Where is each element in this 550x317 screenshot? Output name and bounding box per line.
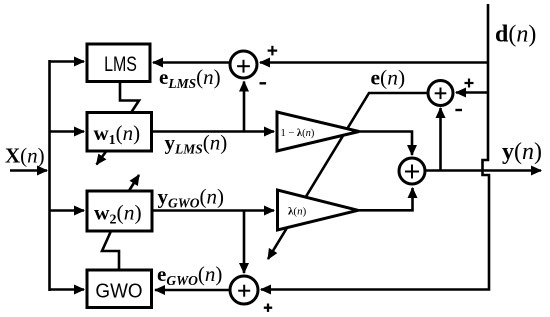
wire e(n) to lambda adaptation [268,93,428,259]
wire w1 adjustable arrow [97,152,107,165]
summer S1 (e_LMS) [230,51,257,78]
wire bus to GWO [50,288,85,291]
wire y_LMS tap up to summer S1 [243,82,246,132]
wire d(n) branch to S1 [260,61,488,64]
node S2 plus sign [465,79,474,88]
node e_LMS(n) label [159,65,221,91]
wire y_GWO tap down to summer S3 [243,211,246,274]
node S3 plus sign [264,304,272,312]
wire e_LMS from S1 to LMS [153,61,230,64]
wire bus to w1 [50,130,85,133]
svg-text:1 − λ(n): 1 − λ(n) [281,128,315,139]
node S1 plus sign [268,46,278,56]
svg-text:w1(n): w1(n) [94,121,141,148]
svg-text:y(n): y(n) [502,139,542,165]
block w2(n) [87,191,152,231]
svg-text:yLMS(n): yLMS(n) [165,131,228,157]
node X(n) label [5,144,45,168]
wire triangle1 output to summer S4 [359,132,412,156]
wire bus to LMS [50,60,85,63]
wire LMS adaptation zigzag to w1 [120,82,139,112]
wire triangle2 output to summer S4 [358,188,413,210]
wire X(n) input arrow [10,169,47,172]
block LMS [87,44,150,82]
svg-text:yGWO(n): yGWO(n) [158,185,225,211]
summer S4 (output combiner) [399,158,425,184]
amplifier triangle 1-lambda U1 [277,112,359,151]
wire e_GWO from S3 to GWO [155,289,230,292]
wire w2 adjustable arrow [129,175,140,192]
node y(n) label [502,139,542,165]
svg-text:λ(n): λ(n) [288,206,307,218]
summer S3 (e_GWO) [230,276,258,304]
wire y(n) output [425,169,541,172]
node y_GWO(n) label [158,185,225,211]
wire d(n) vertical line with crossover jog [261,4,489,290]
svg-text:GWO: GWO [95,280,142,303]
wire bus to w2 [50,209,85,212]
svg-text:eGWO(n): eGWO(n) [157,262,222,288]
wire w2 output y_GWO to triangle 2 [152,209,274,212]
wire y(n) branch up to summer S2 [439,108,442,171]
node y_LMS(n) label [165,131,228,157]
svg-text:w2(n): w2(n) [94,201,142,228]
summer S2 (e) [428,81,453,106]
svg-text:eLMS(n): eLMS(n) [159,65,221,91]
node S1 minus sign [260,82,267,84]
svg-text:LMS: LMS [104,52,137,76]
svg-text:e(n): e(n) [371,66,406,90]
block GWO [87,270,152,308]
amplifier triangle lambda U2 [278,190,359,230]
node S2 minus sign [455,109,462,111]
svg-text:d(n): d(n) [495,22,536,48]
wire d(n) branch to S2 [456,91,488,94]
node d(n) label [495,22,536,48]
wire input bus [48,60,51,291]
block w1(n) [87,113,152,152]
node e(n) label [371,66,406,90]
svg-text:X(n): X(n) [5,144,45,168]
wire w1 output y_LMS to triangle 1 [151,130,274,133]
node e_GWO(n) label [157,262,222,288]
wire GWO adaptation zigzag to w2 [102,231,119,270]
